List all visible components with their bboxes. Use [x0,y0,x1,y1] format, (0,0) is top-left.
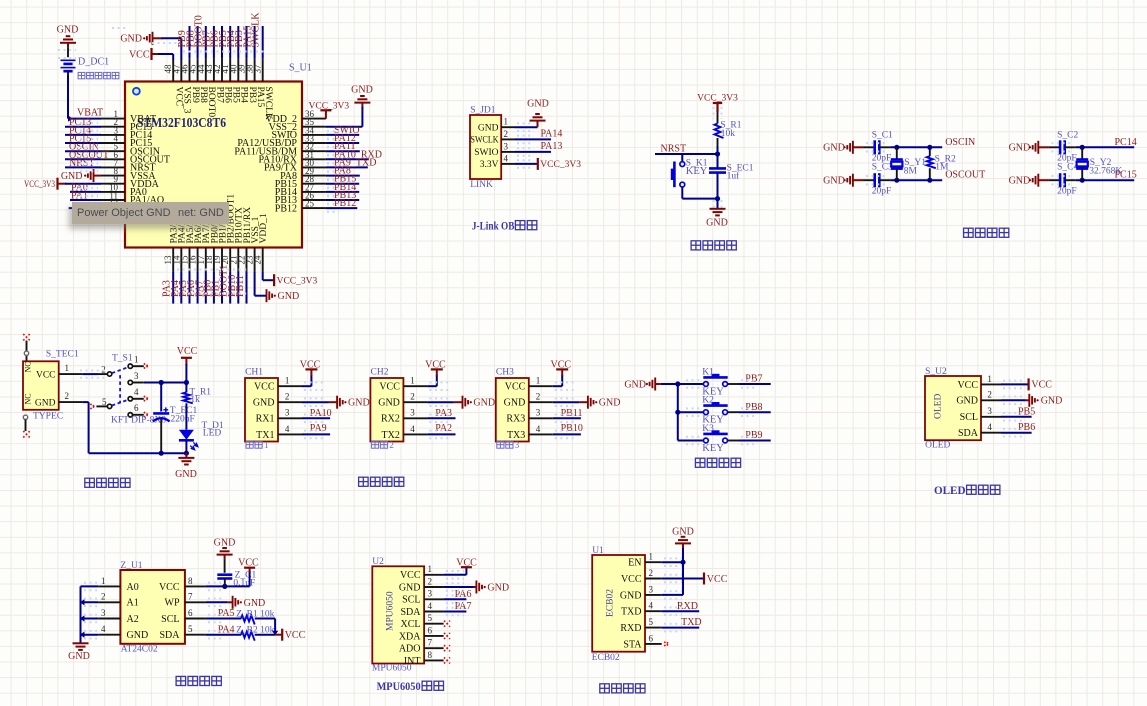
wire node to GND [717,199,719,209]
svg-text:PB12: PB12 [334,198,356,209]
svg-text:37: 37 [253,64,263,74]
switch T_S1 pole 2 [107,404,111,408]
junction rail/cap [159,451,164,456]
svg-text:7: 7 [188,592,193,602]
svg-text:S_U2: S_U2 [925,367,947,377]
mcu left pin 8 VSSA stub [101,175,125,177]
svg-text:25: 25 [305,199,315,209]
wire net PC13 [65,126,101,128]
mcu top pin 40 PB4 stub [237,59,239,82]
svg-text:NC: NC [24,393,33,404]
svg-text:VCC: VCC [159,582,180,593]
mcu top pin 48 VCC stub [172,59,174,82]
battery ground symbol [60,42,76,44]
svg-text:S_U1: S_U1 [289,63,312,74]
wire CH1 GND [302,401,329,403]
wire net PA14 [515,138,551,140]
svg-text:GND: GND [473,398,495,409]
junction PC15 node [1080,178,1085,183]
LED T_D1 [179,430,194,440]
BT pin 4 TXD stub [645,610,662,612]
svg-text:OSCOUT: OSCOUT [945,169,985,180]
svg-text:PB5: PB5 [1018,406,1035,417]
crystal S_Y2 [1081,147,1083,159]
wire net PA2 [427,433,455,435]
wire net PA0 [70,191,101,193]
mcu left pin 3 PC14 stub [101,134,125,136]
svg-text:VCC: VCC [1031,380,1052,391]
svg-text:TXD: TXD [621,607,642,618]
svg-text:1: 1 [134,355,139,365]
JD1 pin 3 SWIO stub [501,151,515,153]
Z_U1 pin 1 A0 stub [98,585,120,587]
junction PC14 node [1080,145,1085,150]
power VCC (pullups) [275,634,282,636]
mcu right pin 28 PB15 stub [302,183,326,185]
svg-text:GND: GND [351,85,373,96]
switch pin5 stub [96,405,107,407]
power VCC_3V3 at JD1 [537,158,539,170]
svg-text:5: 5 [188,624,193,634]
display S_U2 body [925,376,981,440]
svg-text:VCC: VCC [400,570,421,581]
wire cap to VCC node [224,579,226,587]
svg-text:6: 6 [428,625,433,635]
wire net PA3 (bottom) [172,271,174,303]
svg-text:4: 4 [649,601,654,611]
svg-text:GND: GND [399,582,421,593]
K2 right stub [728,411,740,413]
wire net PA7 [444,611,467,613]
wire LED to rail [185,440,187,453]
wire net PA15 (top) [254,26,256,59]
wire SDA + net PA4 [206,634,242,636]
mcu right pin 35 VSS_2 stub [302,126,326,128]
svg-text:1: 1 [504,117,509,127]
resistor T_R1 [183,392,193,403]
svg-text:GND: GND [672,526,694,537]
mcu bottom pin 24 VDD_1 stub [262,248,264,272]
svg-text:1: 1 [101,576,106,586]
Z_U1 pin 3 A2 stub [98,618,120,620]
wire net TXD [662,627,700,629]
svg-text:4: 4 [428,601,433,611]
svg-text:SWCLK: SWCLK [471,136,499,146]
CH3 pin 2 GND stub [529,401,553,403]
svg-text:GND: GND [35,398,56,408]
wire VCC to R1 [717,112,719,124]
svg-text:3: 3 [504,141,509,151]
wire CH1 VCC [302,385,311,387]
svg-text:OLED: OLED [934,483,966,497]
svg-text:1: 1 [428,564,433,574]
CH2 pin 2 GND stub [403,401,427,403]
ground GND (reset) [710,208,726,210]
selection dots CH1 [304,381,326,383]
svg-text:8M: 8M [904,167,918,177]
OLED pin 2 GND stub [981,399,1001,401]
typec top pin wire [26,341,28,362]
svg-text:GND: GND [823,143,845,154]
wire JD1 pin1 to GND [515,126,538,128]
svg-text:TXD: TXD [681,617,702,628]
CH3 pin 3 RX3 stub [529,417,553,419]
svg-text:PB9: PB9 [745,430,762,441]
mcu right pin 29 PA8 stub [302,175,326,177]
label serial-port 3 [497,441,504,448]
capacitor S_C1 [864,146,875,148]
wire net PB4 (top) [237,26,239,59]
svg-text:GND: GND [278,291,300,302]
label serial-port 1 [246,441,253,448]
svg-text:5: 5 [102,397,107,407]
svg-text:GND: GND [127,630,149,641]
bt module U1 body [592,555,645,652]
mcu left pin 11 PA1/AO stub [101,199,125,201]
BT pin 2 VCC stub [645,578,662,580]
svg-text:TYPEC: TYPEC [33,412,63,422]
svg-text:GND: GND [478,123,499,133]
wire PC14 [1076,146,1134,148]
CH1 pin 1 VCC stub [278,385,302,387]
svg-text:VCC_3V3: VCC_3V3 [277,276,318,286]
svg-text:PC14: PC14 [1115,137,1137,148]
wire OSCIN [890,146,942,148]
svg-text:KEY: KEY [702,443,724,454]
wire PC15 [1076,179,1134,181]
svg-text:CH3: CH3 [496,368,514,378]
wire CH2 VCC [427,385,436,387]
resistor Z_R1 [241,616,255,625]
JD1 pin 1 GND stub [501,126,515,128]
mcu bottom pin 13 PA3/A3 stub [172,248,174,272]
wire MPU GND [444,586,474,588]
mcu pin-1 indicator circle [133,88,140,95]
connector CH3 body [496,378,529,442]
wire net PA2 (under tooltip) [69,207,73,209]
ground GND (power) [185,453,187,458]
power VCC (BT) [703,573,705,585]
svg-text:PA14: PA14 [541,129,563,140]
svg-text:SWIO: SWIO [474,148,498,158]
U2 pin 2 GND stub [424,586,444,588]
svg-text:6: 6 [649,633,654,643]
svg-text:1: 1 [410,376,415,386]
OLED pin 1 VCC stub [981,383,1001,385]
svg-text:TX3: TX3 [507,430,525,441]
wire net PC14 [65,134,101,136]
wire R1 to node [717,138,719,147]
mcu right pin 36 VDD_2 stub [302,118,326,120]
svg-text:K3: K3 [702,424,714,434]
wire net BOOT1 (bottom) [229,271,231,303]
U2 pin 8 INT stub [424,659,444,661]
svg-text:NC: NC [24,361,33,372]
selection dots BT [664,557,682,559]
wire net OSCIN [65,150,101,152]
svg-text:2: 2 [389,440,394,450]
caption power circuit [85,478,95,487]
svg-text:2: 2 [504,129,509,139]
svg-text:U2: U2 [372,557,384,567]
wire net PB14 (right) [326,191,359,193]
wire cap to node [717,173,719,199]
svg-text:4: 4 [134,387,139,397]
junction VCC/pin3 [184,380,189,385]
mcu bottom pin 14 PA4/A4 stub [180,248,182,272]
ground GND (CH1) [329,401,338,403]
mcu top pin 46 PB9 stub [189,59,191,82]
mcu top pin 42 PB6 stub [221,59,223,82]
caption serial circuit [359,477,369,486]
wire OLED GND [1001,399,1026,401]
svg-text:RXD: RXD [677,601,698,612]
caption storage module [176,676,186,685]
svg-text:PA10: PA10 [310,408,332,419]
wire net PB11 [553,417,581,419]
svg-text:PB12: PB12 [275,203,297,214]
svg-text:CH2: CH2 [371,368,389,378]
Z_U1 pin 5 SDA stub [185,634,206,636]
ground GND (CH3) [579,401,588,403]
svg-text:KFT DIP-8X8: KFT DIP-8X8 [111,415,166,425]
wire net PA11 (right) [326,150,360,152]
wire BT GND pin [662,594,683,596]
wire net PA5 (bottom) [189,271,191,303]
wire net PB1 (bottom) [221,271,223,303]
svg-text:SDA: SDA [400,607,421,618]
svg-text:VCC: VCC [36,370,56,380]
typec bottom pin circle [23,415,27,419]
BT pin 6 STA stub [645,643,662,645]
mcu right pin 26 PB13 stub [302,199,326,201]
OLED pin 3 SCL stub [981,416,1001,418]
CH1 pin 2 GND stub [278,401,302,403]
ground GND (MPU) [474,586,477,588]
svg-text:SDA: SDA [958,428,979,439]
svg-text:5: 5 [649,617,654,627]
svg-text:VCC: VCC [254,382,275,393]
wire R1 to LED [185,403,187,429]
sensor U2 body [372,566,424,663]
svg-text:A0: A0 [127,582,139,593]
svg-text:GND: GND [1041,396,1063,407]
wire Z_R1 to VCC [255,618,275,620]
selection dots OLED [1003,380,1025,382]
capacitor S_C2 [1049,146,1060,148]
svg-text:220uF: 220uF [171,414,195,424]
mcu U1 STM32F103C8T6 body [125,82,302,248]
svg-text:GND: GND [68,651,90,662]
mcu bottom pin 16 PA6/A6 stub [197,248,199,272]
junction rail end [184,451,189,456]
svg-text:GND: GND [487,583,509,594]
svg-text:8: 8 [428,650,433,660]
mcu bottom pin 19 PB1/A9 stub [221,248,223,272]
wire GND to pin47 [162,37,182,39]
wire net PC15 [65,142,101,144]
Z_U1 pin 4 GND stub [98,634,120,636]
caption reset circuit [691,241,701,250]
wire VDD_1 to VCC_3V3 [262,271,264,280]
wire net SWIO (right) [326,134,359,136]
mcu right pin 25 PB12 stub [302,207,326,209]
connector S_JD1 body [470,115,501,179]
wire net PA1 [70,199,101,201]
wire net PA10 [302,417,330,419]
svg-text:2: 2 [101,364,106,374]
mcu top pin 45 PB8 stub [197,59,199,82]
svg-text:VDD_1: VDD_1 [259,213,269,243]
wire VCC down [185,364,187,392]
wire net PB6 [1001,432,1032,434]
typec bottom no-connect X [23,431,29,437]
switch pin3 stub [133,382,144,384]
svg-text:3: 3 [649,584,654,594]
svg-text:CH1: CH1 [245,368,263,378]
switch pin6 circle [128,413,132,417]
mcu left pin 10 PA0 stub [101,191,125,193]
svg-text:6: 6 [188,608,193,618]
svg-text:PB8: PB8 [745,402,762,413]
CH1 pin 4 TX1 stub [278,433,302,435]
svg-text:3: 3 [987,406,992,416]
wire MPU VCC [444,574,467,576]
svg-text:2: 2 [987,390,992,400]
U2 pin 8 no-connect X [444,657,450,663]
svg-text:K1: K1 [702,367,714,377]
wire net PB13 (right) [326,199,359,201]
svg-text:VCC: VCC [621,574,642,585]
svg-text:10k: 10k [721,129,736,139]
svg-text:TX2: TX2 [382,430,400,441]
wire net PA10_RXD (right) [326,158,369,160]
svg-text:RX1: RX1 [256,414,275,425]
svg-text:3: 3 [410,408,415,418]
wire net SWCLK (top) [262,26,264,59]
svg-text:S_C1: S_C1 [872,131,893,141]
mcu right pin 32 PA11/USB/DM stub [302,150,326,152]
svg-text:GND: GND [348,398,370,409]
wire net PA6 (bottom) [197,271,199,303]
svg-text:1: 1 [649,552,654,562]
svg-text:SWCLK: SWCLK [263,87,273,120]
svg-text:RX2: RX2 [381,414,400,425]
svg-text:3: 3 [428,589,433,599]
mcu bottom pin 15 PA5/A5 stub [189,248,191,272]
wire typec GND to rail [82,401,88,403]
wire WP pin7 [206,601,228,603]
svg-text:1: 1 [264,440,269,450]
svg-text:4: 4 [987,422,992,432]
svg-text:LED: LED [203,428,222,438]
wire typec VCC to switch [82,373,97,375]
wire net PB5 [1001,416,1032,418]
GND bus vertical [80,586,82,643]
svg-text:RX3: RX3 [506,414,525,425]
mcu left pin 2 PC13 stub [101,126,125,128]
svg-text:S_C3: S_C3 [872,162,893,172]
svg-text:3.3V: 3.3V [480,160,499,170]
svg-text:2: 2 [536,392,541,402]
svg-text:GND: GND [527,99,549,110]
wire VSS_1 to GND [254,271,256,295]
selection dots CH3 [555,381,577,383]
switch pin3 circle [128,380,132,384]
ground GND (storage) [73,642,89,644]
switch pin6 stub + X [133,414,144,416]
mcu left pin 4 PC15 stub [101,142,125,144]
switch pin1 stub + X [133,365,144,367]
svg-text:XDA: XDA [399,631,421,642]
svg-text:PA9: PA9 [310,423,327,434]
svg-text:GND: GND [624,379,646,390]
selection dots MPU [446,570,464,572]
capacitor S_C4 [1049,179,1060,181]
mcu right pin 30 PA9/TX stub [302,166,326,168]
svg-text:GND: GND [1009,176,1031,187]
selection dots JD1 [517,122,534,124]
svg-text:GND: GND [1009,143,1031,154]
svg-text:GND: GND [120,34,142,45]
U2 pin 5 no-connect X [444,621,450,627]
svg-text:PB7: PB7 [745,374,762,385]
wire GND down to EN [682,548,684,595]
svg-text:PB10: PB10 [561,423,583,434]
svg-text:VCC: VCC [379,382,400,393]
svg-text:PB6: PB6 [1018,422,1035,433]
junction OSCOUT node [894,178,899,183]
mcu top pin 44 BOOT0 stub [205,59,207,82]
pushbutton K2 [704,410,709,415]
svg-text:3: 3 [134,371,139,381]
caption key circuit [695,458,705,467]
U2 pin 6 no-connect X [444,633,450,639]
svg-text:VCC: VCC [129,50,150,61]
switch T_S1 pole 1 [107,372,111,376]
selection dots CH2 [429,381,451,383]
svg-text:EN: EN [628,558,641,569]
wire net PA12 (right) [326,142,359,144]
caption bluetooth module [600,684,610,693]
svg-text:GND: GND [61,171,83,182]
svg-text:STA: STA [623,639,642,650]
wire EN to GND net [662,561,683,563]
svg-text:D_DC1: D_DC1 [78,57,109,68]
wire CH2 GND [427,401,454,403]
ground GND (WP) [228,601,233,603]
svg-text:S_TEC1: S_TEC1 [46,350,79,360]
svg-text:A2: A2 [127,614,139,625]
capacitor S_C3 [864,179,875,181]
svg-text:1: 1 [536,376,541,386]
CH2 pin 3 RX2 stub [403,417,427,419]
svg-text:OSCIN: OSCIN [945,137,975,148]
mcu top pin 47 VSS_3 stub [180,59,182,82]
svg-text:VCC: VCC [957,380,978,391]
wire net PB6 (top) [221,26,223,59]
U2 pin 1 VCC stub [424,574,444,576]
wire net PB9 (key) [739,440,771,442]
mcu left pin 9 VDDA stub [101,183,125,185]
selection dots power [80,370,104,372]
svg-text:ADO: ADO [399,644,421,655]
svg-text:SCL: SCL [402,595,420,606]
svg-text:PB11: PB11 [561,408,583,419]
svg-text:PA13: PA13 [541,141,563,152]
mcu top pin 43 PB7 stub [213,59,215,82]
label serial-port 2 [371,441,378,448]
